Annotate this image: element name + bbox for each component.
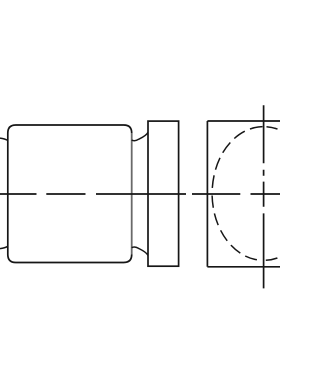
- hidden can outline (dashed ellipse): [212, 127, 277, 261]
- crimp arc top-left (clipped at image edge): [0, 138, 8, 140]
- bung fillet bottom-right (body to seat plate): [132, 247, 148, 255]
- crimp arc bottom-left (clipped at image edge): [0, 246, 8, 248]
- end view square (clipped at right image edge): [207, 121, 281, 267]
- horizontal centerline (dash-dot): [0, 193, 281, 195]
- seat plate (narrow rectangle, edge view): [148, 121, 179, 266]
- bung fillet top-right (body to seat plate): [132, 132, 148, 140]
- vertical centerline of end view (dash-dot): [263, 105, 265, 288]
- capacitor body (side view can, rounded rectangle; right edge drawn lighter): [131, 133, 133, 255]
